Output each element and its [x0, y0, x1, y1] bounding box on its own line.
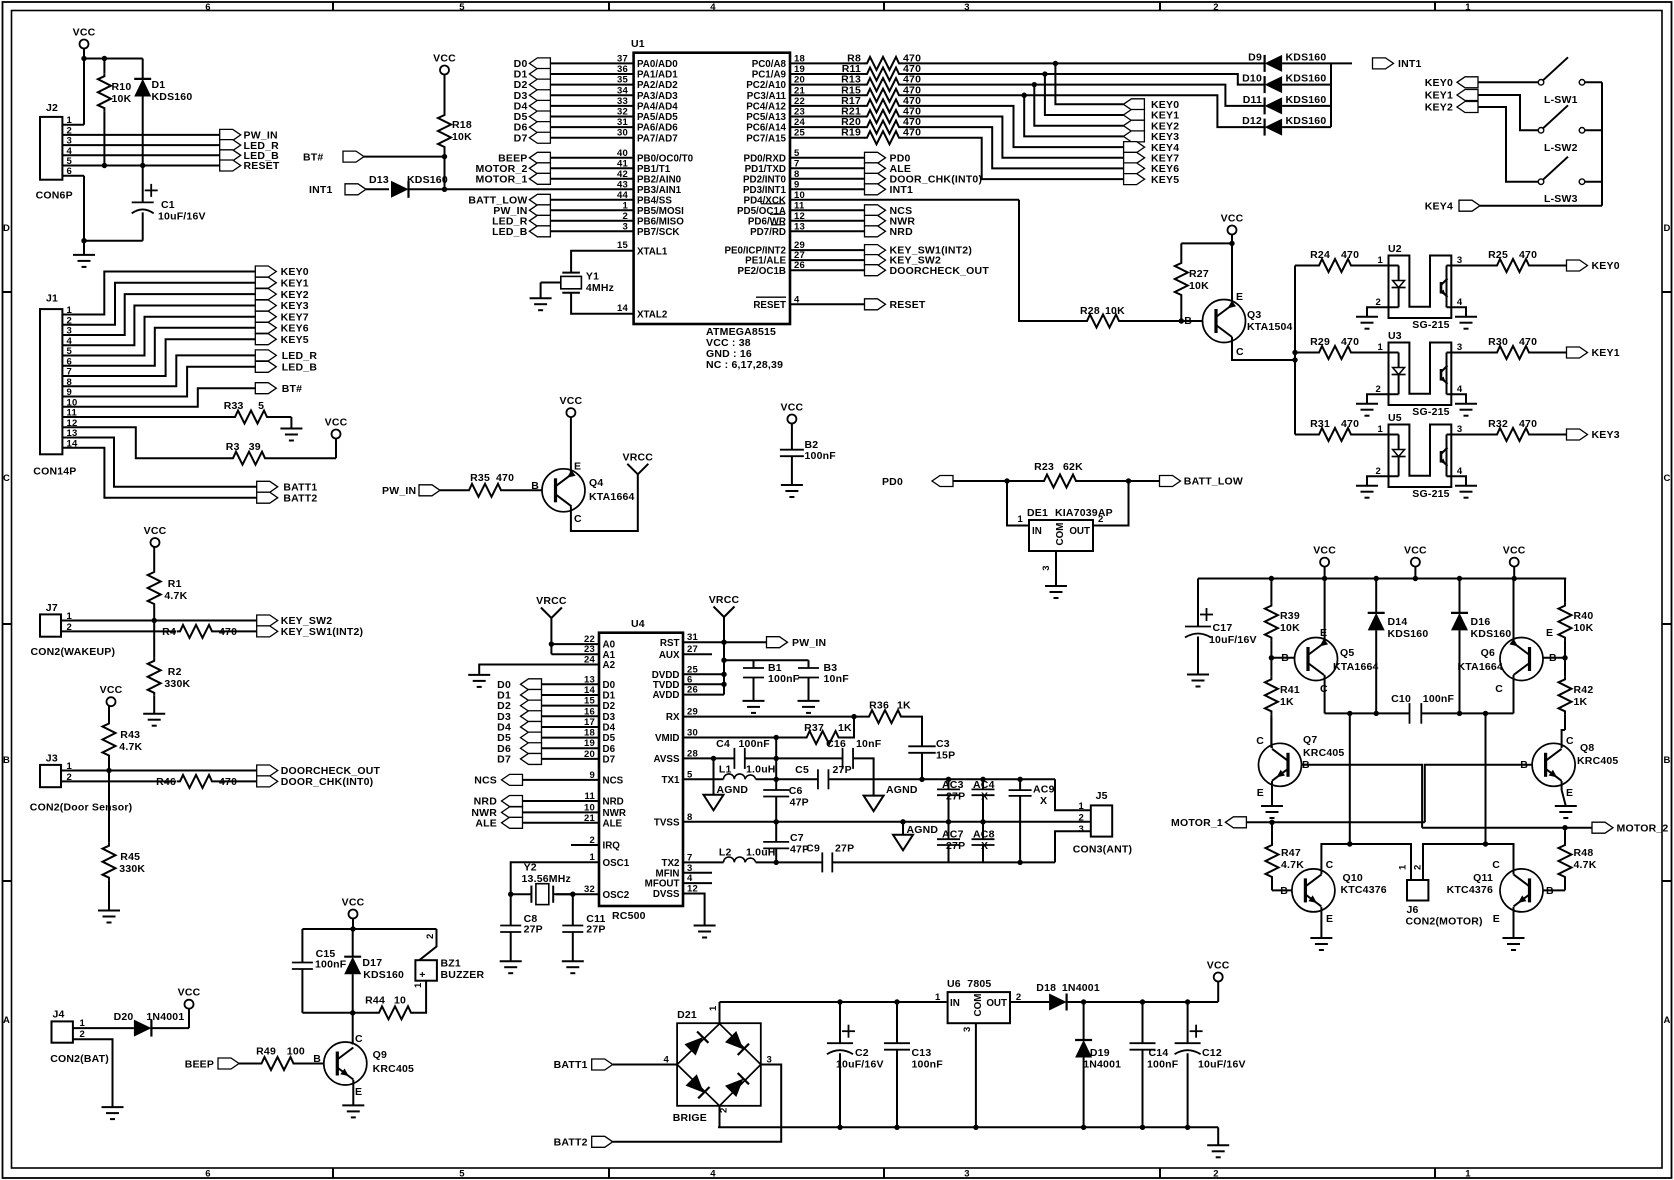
svg-text:KDS160: KDS160: [363, 969, 404, 981]
svg-text:KEY1: KEY1: [1592, 347, 1620, 359]
wire XTAL1: [571, 251, 634, 273]
diode D19: [1075, 1002, 1121, 1127]
svg-text:36: 36: [617, 64, 628, 75]
wire Q6 base: [1543, 657, 1565, 659]
U4 pin 14 D1: [584, 685, 616, 702]
svg-text:C: C: [1256, 735, 1264, 747]
svg-text:RESET: RESET: [890, 299, 926, 311]
wire J1 pin3 to KEY2: [62, 294, 255, 335]
svg-text:R27: R27: [1189, 268, 1209, 280]
diode D17: [344, 929, 404, 1013]
svg-text:R40: R40: [1574, 610, 1594, 622]
U1 WR overline: [770, 213, 785, 215]
svg-text:NRD: NRD: [890, 226, 914, 238]
wire MOTOR_2 row: [1422, 825, 1592, 830]
svg-text:KEY1: KEY1: [1425, 90, 1453, 102]
svg-text:J3: J3: [46, 753, 58, 765]
svg-text:470: 470: [1519, 336, 1537, 348]
IC U4 RC500 body: [599, 618, 683, 922]
flag KEY3 (J1): [255, 300, 309, 312]
svg-text:AC4: AC4: [973, 779, 995, 791]
svg-text:2: 2: [425, 934, 436, 939]
svg-text:TX2: TX2: [662, 858, 681, 869]
svg-text:6: 6: [205, 1168, 210, 1179]
J1 pin 2: [67, 315, 72, 326]
svg-text:AGND: AGND: [886, 784, 918, 796]
wire U6 COM to ground: [962, 1023, 976, 1127]
svg-text:1: 1: [1465, 1168, 1471, 1179]
U2 pin4 to ground: [1447, 297, 1467, 317]
wire PD4 net to R28: [1019, 200, 1084, 321]
svg-text:IRQ: IRQ: [603, 841, 621, 852]
flag KEY_SW2: [865, 255, 942, 267]
svg-text:D0: D0: [603, 680, 616, 691]
svg-text:1: 1: [935, 992, 941, 1003]
wire R4 to KEY_SW1: [215, 630, 257, 632]
ground (Q7): [1261, 806, 1283, 818]
U4 pin 20 D7: [584, 749, 616, 766]
wire VCC to Q3/R27: [1181, 235, 1234, 302]
capacitor AC9 X: [1009, 779, 1055, 862]
flag D6 (U4): [497, 743, 541, 755]
svg-text:1: 1: [1018, 514, 1024, 525]
flag PW_IN (U4): [767, 637, 827, 649]
diode D11: [1243, 94, 1327, 115]
svg-text:2: 2: [1413, 865, 1424, 870]
svg-text:KEY_SW1(INT2): KEY_SW1(INT2): [281, 626, 364, 638]
ground (DVSS): [694, 926, 716, 938]
U1 pin 36 PA1/AD1 with flag D1: [514, 64, 679, 81]
U1 pin 32 PA5/AD5 with flag D5: [514, 107, 679, 124]
wire supply top rail: [720, 1001, 947, 1003]
svg-text:R1: R1: [168, 578, 182, 590]
power symbol VCC (R18): [433, 53, 456, 75]
wire buzzer rail: [302, 919, 436, 932]
flag LED_R (J1): [255, 350, 317, 362]
svg-text:3: 3: [964, 2, 969, 13]
svg-text:Q10: Q10: [1343, 872, 1363, 884]
wire AVSS AGND stem: [713, 758, 715, 794]
switch L-SW2: [1538, 105, 1602, 154]
svg-text:34: 34: [617, 85, 628, 96]
wire DE1 pin3 to ground: [1041, 551, 1056, 586]
svg-text:D12: D12: [1242, 115, 1262, 127]
svg-text:PA1/AD1: PA1/AD1: [637, 70, 678, 81]
svg-text:R47: R47: [1281, 847, 1301, 859]
flag NRD (U1 right): [865, 226, 914, 238]
svg-text:15: 15: [617, 240, 628, 251]
wire to J6 pin1: [1350, 844, 1411, 880]
svg-text:PB2/AIN0: PB2/AIN0: [637, 174, 682, 185]
wire KEY0 to L-SW1: [1478, 81, 1538, 83]
ground (B1): [743, 701, 765, 713]
wire C10 rail: [1325, 711, 1514, 716]
svg-text:SG-215: SG-215: [1412, 319, 1449, 331]
J1 pin 8: [67, 377, 72, 388]
ground (U5 pin4): [1455, 486, 1477, 498]
flag DOORCHECK_OUT: [257, 765, 381, 777]
resistor R40: [1559, 579, 1594, 658]
U4 pin 4 MFOUT: [645, 873, 693, 890]
flag INT1 (top right): [1373, 58, 1422, 70]
resistor R33: [224, 400, 270, 424]
flag BATT_LOW (U1): [468, 194, 550, 206]
J1 pin 10: [67, 397, 78, 408]
resistor R39: [1265, 579, 1300, 658]
U4 pin 27 AUX: [659, 644, 698, 661]
wire R49 to Q9 base: [297, 1063, 324, 1065]
flag KEY2 (matrix): [1123, 120, 1179, 132]
wire J1 pin6 to KEY6: [62, 328, 255, 366]
wire VMID row: [683, 737, 804, 739]
flag KEY4 (matrix): [1124, 142, 1180, 154]
wire to flag KEY2: [1034, 85, 1123, 126]
flag KEY6 (matrix): [1124, 163, 1180, 175]
wire R32 to KEY3: [1532, 434, 1567, 436]
svg-text:D2: D2: [603, 701, 616, 712]
wire BT# to R18: [364, 154, 447, 159]
svg-text:D4: D4: [603, 723, 616, 734]
svg-text:D14: D14: [1388, 616, 1408, 628]
flag RESET (U1): [865, 299, 926, 311]
ground (DE1): [1045, 586, 1067, 598]
resistor R20 470: [841, 116, 921, 133]
svg-text:10: 10: [794, 190, 805, 201]
svg-text:A2: A2: [603, 660, 616, 671]
U4 pin 21 ALE: [584, 813, 623, 830]
U1 OC1A overline: [761, 203, 785, 205]
svg-text:J2: J2: [46, 102, 58, 114]
capacitor C5 27P: [795, 764, 852, 789]
capacitor AC7 27P: [937, 822, 965, 863]
svg-text:4.7K: 4.7K: [164, 590, 187, 602]
flag LED_R (U1): [492, 215, 550, 227]
flag PW_IN (Q4): [382, 485, 440, 497]
U1 pin 40 PB0/OC0/T0: [550, 148, 693, 165]
svg-text:KDS160: KDS160: [1286, 73, 1327, 85]
wire Q8 emitter to ground: [1562, 781, 1566, 806]
svg-text:PC3/A11: PC3/A11: [747, 91, 787, 102]
U2 pin2 to ground: [1367, 297, 1399, 317]
svg-text:4: 4: [1457, 384, 1463, 395]
svg-text:1.0uH: 1.0uH: [746, 847, 776, 859]
svg-text:AC3: AC3: [942, 779, 964, 791]
svg-text:470: 470: [1519, 249, 1537, 261]
svg-text:OUT: OUT: [986, 998, 1007, 1009]
flag KEY3 (opto): [1567, 429, 1620, 441]
svg-text:R4: R4: [162, 626, 176, 638]
svg-text:10K: 10K: [1189, 280, 1209, 292]
svg-text:E: E: [1546, 627, 1553, 639]
svg-text:NWR: NWR: [603, 808, 626, 819]
svg-text:27P: 27P: [835, 843, 854, 855]
svg-text:D7: D7: [603, 755, 616, 766]
svg-text:J1: J1: [46, 293, 58, 305]
svg-text:KEY3: KEY3: [281, 300, 309, 312]
U1 pin 11 PD5/OC1A: [737, 200, 865, 217]
ground (Y1): [530, 298, 552, 310]
wire Q6 emitter: [1513, 579, 1516, 644]
svg-text:BT#: BT#: [282, 383, 302, 395]
svg-text:100nF: 100nF: [805, 450, 837, 462]
svg-text:4: 4: [710, 1168, 716, 1179]
svg-text:C3: C3: [936, 738, 950, 750]
svg-text:4.7K: 4.7K: [1281, 859, 1304, 871]
capacitor B1: [743, 660, 800, 701]
svg-text:Q4: Q4: [589, 477, 603, 489]
svg-text:KIA7039AP: KIA7039AP: [1055, 507, 1113, 519]
svg-text:CON2(BAT): CON2(BAT): [50, 1053, 109, 1065]
svg-text:U3: U3: [1388, 330, 1402, 342]
svg-text:20: 20: [794, 75, 805, 86]
svg-text:22: 22: [794, 96, 805, 107]
flag INT1 (U1 right): [865, 184, 914, 196]
resistor R1: [148, 547, 188, 621]
wire PC2 net to D11: [902, 82, 1265, 106]
svg-text:1: 1: [623, 200, 629, 211]
ground (U3 pin2): [1356, 404, 1378, 416]
svg-text:Y2: Y2: [524, 862, 537, 874]
svg-text:BATT2: BATT2: [283, 492, 317, 504]
svg-text:47P: 47P: [790, 797, 809, 809]
svg-text:D5: D5: [603, 733, 616, 744]
resistor R45: [103, 771, 146, 911]
wire J2 pin3 LED_R: [62, 144, 219, 146]
J1 pin 6: [67, 356, 72, 367]
svg-text:BEEP: BEEP: [185, 1059, 214, 1071]
wire to flag KEY1: [1045, 74, 1124, 115]
svg-text:E: E: [1326, 913, 1333, 925]
flag KEY0 (matrix): [1123, 99, 1179, 111]
wire to flag KEY3: [1024, 95, 1123, 136]
svg-text:10K: 10K: [1280, 622, 1300, 634]
U4 pin 23 A1: [584, 644, 616, 661]
wire to flag KEY4: [902, 106, 1123, 147]
capacitor C2: [827, 999, 884, 1127]
wire U6 out: [1010, 1001, 1049, 1003]
svg-text:KEY6: KEY6: [281, 323, 309, 335]
wire J1 pin7 to KEY5: [62, 339, 255, 376]
wire D20 to VCC: [151, 1009, 189, 1028]
flag KEY3 (matrix): [1123, 131, 1179, 143]
svg-text:Q8: Q8: [1580, 742, 1594, 754]
wire to flag KEY0: [1055, 63, 1123, 104]
power symbol VCC (supply out): [1207, 960, 1230, 982]
U1 pin 33 PA4/AD4 with flag D4: [514, 96, 679, 113]
J1 pin 7: [67, 367, 72, 378]
svg-text:PD7/RD: PD7/RD: [750, 227, 786, 238]
svg-text:KEY2: KEY2: [281, 289, 309, 301]
svg-text:7: 7: [794, 158, 799, 169]
flag KEY1 (opto): [1567, 347, 1620, 359]
wire J2 pin5 RESET: [62, 165, 219, 167]
U4 pin 24 A2: [584, 655, 616, 672]
wire VMID junction vertical: [683, 735, 779, 782]
wire OSC1: [508, 862, 599, 897]
ground (C8): [500, 961, 522, 973]
wire TX2 row right: [832, 860, 1055, 865]
U4 pin 25 DVDD: [652, 664, 699, 681]
svg-text:PA5/AD5: PA5/AD5: [637, 112, 678, 123]
svg-text:1K: 1K: [838, 722, 852, 734]
svg-text:470: 470: [1341, 418, 1359, 430]
wire C4 to VMID vertical: [745, 757, 776, 759]
power symbol VCC (B2): [781, 402, 804, 424]
svg-text:PD0/RXD: PD0/RXD: [744, 153, 786, 164]
svg-text:KDS160: KDS160: [1471, 628, 1512, 640]
flag BEEP: [185, 1058, 239, 1071]
U4 pin 29 RX: [666, 707, 698, 724]
J2 pin 5: [67, 156, 73, 167]
svg-text:BATT1: BATT1: [554, 1059, 588, 1071]
wire TX1 to J5 pin1: [1055, 779, 1091, 810]
wire VCC stem (Q5): [1324, 567, 1326, 579]
wire A2 to ground: [479, 665, 599, 675]
U1 part labels: [706, 326, 783, 371]
svg-text:RX: RX: [666, 712, 680, 723]
svg-text:KDS160: KDS160: [1286, 51, 1327, 63]
svg-text:PA7/AD7: PA7/AD7: [637, 133, 678, 144]
wire J4 pin2 to ground: [73, 1039, 113, 1107]
diode D20: [114, 1011, 185, 1037]
svg-text:100nF: 100nF: [1423, 693, 1455, 705]
U4 pin 2 IRQ: [590, 835, 621, 852]
svg-text:10uF/16V: 10uF/16V: [1198, 1059, 1246, 1071]
svg-text:KDS160: KDS160: [407, 174, 448, 186]
svg-text:3: 3: [962, 1027, 973, 1032]
svg-text:1: 1: [1378, 342, 1384, 353]
svg-text:C: C: [574, 513, 582, 525]
svg-text:C6: C6: [789, 785, 803, 797]
wire RST to PW_IN: [683, 640, 767, 645]
svg-text:470: 470: [496, 472, 514, 484]
svg-text:PC7/A15: PC7/A15: [746, 133, 786, 144]
U4 pin 13 D0: [584, 674, 616, 691]
svg-text:KDS160: KDS160: [1388, 628, 1429, 640]
svg-text:PD0: PD0: [882, 476, 903, 488]
resistor R37 1K: [804, 722, 852, 744]
resistor R46 470: [156, 775, 237, 788]
svg-text:PB6/MISO: PB6/MISO: [637, 216, 684, 227]
wire D4 to U4: [542, 726, 600, 728]
svg-text:5: 5: [258, 400, 264, 412]
svg-text:OSC1: OSC1: [603, 858, 630, 869]
svg-text:KEY5: KEY5: [1151, 174, 1179, 186]
crystal Y2: [511, 862, 573, 905]
svg-text:VCC: VCC: [781, 402, 804, 414]
svg-text:5: 5: [459, 1168, 465, 1179]
svg-text:VCC: VCC: [178, 987, 201, 999]
transistor Q5 KTA1664: [1281, 627, 1378, 695]
svg-text:VCC: VCC: [1221, 213, 1244, 225]
wire J1 pin12 to R3: [62, 427, 231, 458]
svg-text:B: B: [1664, 755, 1671, 766]
flag KEY2 (switch): [1425, 102, 1478, 114]
wire J2 pin2 PW_IN: [62, 134, 219, 136]
svg-text:D: D: [1664, 223, 1671, 234]
capacitor C13: [884, 999, 943, 1127]
resistor R48: [1559, 828, 1597, 891]
svg-text:PD2/INT0: PD2/INT0: [743, 174, 787, 185]
wire opto bus: [1292, 266, 1297, 435]
connector J3: [30, 753, 133, 814]
IC U1 ATMEGA8515 body: [631, 38, 790, 324]
resistor R30 470: [1447, 336, 1538, 359]
flag BT# (J1): [255, 383, 302, 395]
U4 pin 19 D6: [584, 738, 616, 755]
U1 pin 29 PE0/ICP/INT2: [724, 240, 864, 257]
svg-text:PB5/MOSI: PB5/MOSI: [637, 206, 684, 217]
svg-text:R33: R33: [224, 400, 244, 412]
wire to flag KEY5: [902, 138, 1123, 179]
svg-text:62K: 62K: [1063, 461, 1083, 473]
svg-text:B: B: [313, 1053, 321, 1065]
J2 pin 1: [67, 115, 73, 126]
capacitor AC4 X: [972, 779, 995, 822]
capacitor C1: [132, 166, 206, 241]
U4 pin 30 VMID: [655, 728, 698, 745]
svg-text:DE1: DE1: [1027, 507, 1048, 519]
svg-text:27P: 27P: [946, 791, 965, 803]
U1 pin 12 PD6/WR: [748, 211, 865, 228]
capacitor AC3 27P: [937, 779, 965, 822]
svg-text:RC500: RC500: [612, 910, 646, 922]
connector J7: [31, 602, 116, 658]
svg-text:10K: 10K: [1105, 305, 1125, 317]
wire PC1 net to D10: [902, 71, 1265, 84]
flag BATT1 (supply): [554, 1059, 613, 1071]
wire H-bridge VCC rail: [1198, 576, 1566, 581]
U1 pin 37 PA0/AD0 with flag D0: [514, 53, 679, 70]
svg-text:AGND: AGND: [717, 784, 749, 796]
svg-text:PA3/AD3: PA3/AD3: [637, 91, 678, 102]
svg-text:2: 2: [1376, 297, 1381, 308]
svg-text:B: B: [531, 480, 539, 492]
resistor R13 470: [841, 74, 921, 92]
svg-text:KDS160: KDS160: [1286, 94, 1327, 106]
U1 pin 4 RESET: [753, 294, 864, 311]
wire bottom rail to ground: [1217, 1127, 1219, 1145]
wire D18 to VCC rail: [1067, 999, 1219, 1004]
wire D6 to U4: [542, 747, 600, 749]
svg-text:10uF/16V: 10uF/16V: [158, 211, 206, 223]
ground (U3 pin4): [1455, 404, 1477, 416]
svg-text:KDS160: KDS160: [1286, 115, 1327, 127]
wire Q5 collector: [1324, 675, 1326, 713]
flag BATT2 (J1): [257, 492, 318, 504]
svg-text:R10: R10: [112, 81, 132, 93]
svg-text:B: B: [3, 755, 10, 766]
U1 pin 9 PD3/INT1: [743, 179, 865, 196]
wire MOTOR_1 row: [1246, 820, 1424, 825]
wire to flag KEY7: [902, 117, 1123, 158]
power symbol VCC (Q4): [560, 395, 583, 417]
U1 pin 34 PA3/AD3 with flag D3: [514, 85, 679, 102]
connector J2: [36, 102, 73, 202]
svg-text:E: E: [574, 461, 581, 473]
wire DE1 pin1: [1007, 481, 1029, 526]
ground (Q8): [1555, 806, 1577, 818]
svg-text:OSC2: OSC2: [603, 890, 630, 901]
wire R44 to Q9 collector: [302, 1010, 376, 1044]
wire C16 to AGND: [853, 758, 874, 795]
power symbol VRCC (U4 A0): [536, 595, 567, 618]
wire diode bus to INT1: [1331, 63, 1352, 127]
wire J1 pin11 to R33: [62, 416, 232, 418]
U1 pin 43 PB3/AIN1: [617, 179, 682, 196]
U1 pin 42 PB2/AIN0: [550, 169, 681, 186]
wire Q11 emitter to ground: [1513, 907, 1515, 938]
